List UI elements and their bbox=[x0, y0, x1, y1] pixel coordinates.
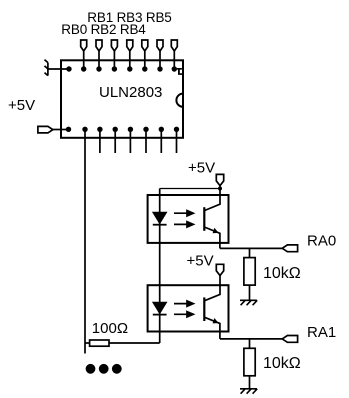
wires from flags to top pins bbox=[84, 51, 175, 69]
wire 100 ohm left lead bbox=[85, 342, 90, 344]
light arrow 1b bbox=[174, 222, 193, 227]
svg-text:RA0: RA0 bbox=[307, 232, 336, 249]
svg-text:10kΩ: 10kΩ bbox=[263, 355, 301, 372]
wire resistor R1 top stub bbox=[249, 248, 251, 257]
port flag RB4 bbox=[142, 40, 148, 51]
port flag +5V opto1 bbox=[216, 174, 223, 185]
pin 1 mark L bbox=[177, 68, 183, 75]
wire resistor R1 bottom stub bbox=[249, 285, 251, 300]
optocoupler U3 box bbox=[148, 285, 229, 331]
bottom row pin dots bbox=[66, 127, 179, 132]
transistor Q2 base bar bbox=[203, 297, 205, 321]
LED2 cathode bar bbox=[153, 314, 167, 316]
chassis symbol rotated (pin 1) bbox=[45, 60, 48, 76]
transistor Q1 emitter arrow bbox=[213, 228, 219, 233]
port flag 7 bbox=[171, 40, 177, 51]
op-amp U1 ULN2803 body bbox=[61, 60, 183, 138]
resistor R1 10k body bbox=[244, 258, 255, 286]
diode LED2 bbox=[153, 302, 167, 313]
resistor R3 100 body bbox=[90, 340, 109, 346]
transistor Q1 emitter bbox=[204, 227, 220, 248]
port flag +5V left bbox=[38, 126, 53, 133]
wire RA0 bbox=[220, 247, 282, 249]
node junction opto1 bbox=[218, 187, 222, 191]
wire +5V flag to pin bbox=[53, 129, 69, 131]
port flag RA1 bbox=[282, 336, 297, 343]
svg-text:RA1: RA1 bbox=[307, 324, 336, 341]
transistor Q2 emitter bbox=[204, 317, 220, 339]
wire flag to junction bbox=[219, 186, 221, 189]
wire 100 ohm to LED string bbox=[109, 342, 160, 344]
svg-text:+5V: +5V bbox=[8, 97, 35, 114]
ground 2 bbox=[240, 389, 257, 394]
port flag +5V opto2 bbox=[216, 264, 223, 275]
svg-text:+5V: +5V bbox=[187, 253, 214, 270]
port flag RA0 bbox=[282, 245, 297, 252]
transistor Q1 base bar bbox=[203, 207, 205, 231]
wire resistor R2 top stub bbox=[249, 339, 251, 348]
wire long vertical from pin 2 down bbox=[84, 129, 86, 353]
light arrow 2a bbox=[174, 301, 193, 306]
port flag RB1 bbox=[96, 40, 102, 51]
transistor Q2 emitter arrow bbox=[213, 318, 219, 323]
wire RA1 bbox=[220, 338, 282, 340]
diode LED1 bbox=[153, 212, 167, 223]
ground 1 bbox=[240, 300, 257, 305]
wire resistor R2 bottom stub bbox=[249, 376, 251, 389]
port flag RB5 bbox=[157, 40, 163, 51]
port flag RB3 bbox=[127, 40, 133, 51]
wire pin1 to chassis symbol bbox=[48, 68, 69, 70]
transistor Q1 collector bbox=[204, 189, 220, 211]
light arrow 1a bbox=[174, 211, 193, 216]
port flag RB2 bbox=[111, 40, 117, 51]
svg-text:+5V: +5V bbox=[188, 160, 215, 177]
svg-text:100Ω: 100Ω bbox=[92, 320, 128, 337]
optocoupler U2 box bbox=[148, 195, 229, 243]
svg-text:ULN2803: ULN2803 bbox=[99, 84, 162, 101]
svg-text:RB0 RB2 RB4: RB0 RB2 RB4 bbox=[61, 22, 146, 37]
svg-text:10kΩ: 10kΩ bbox=[263, 265, 301, 282]
bottom pin stubs bbox=[100, 129, 177, 153]
wire anode +5V horizontal bbox=[160, 188, 220, 190]
wire LED string vertical bbox=[159, 189, 161, 344]
transistor Q2 collector bbox=[204, 285, 220, 301]
light arrow 2b bbox=[174, 312, 193, 317]
ellipsis dots bbox=[86, 364, 122, 374]
top row pin dots bbox=[66, 66, 177, 71]
LED1 cathode bar bbox=[153, 224, 167, 226]
port flag RB0 bbox=[81, 40, 87, 51]
wire flag2 down bbox=[219, 276, 221, 286]
resistor R2 10k body bbox=[244, 348, 255, 376]
